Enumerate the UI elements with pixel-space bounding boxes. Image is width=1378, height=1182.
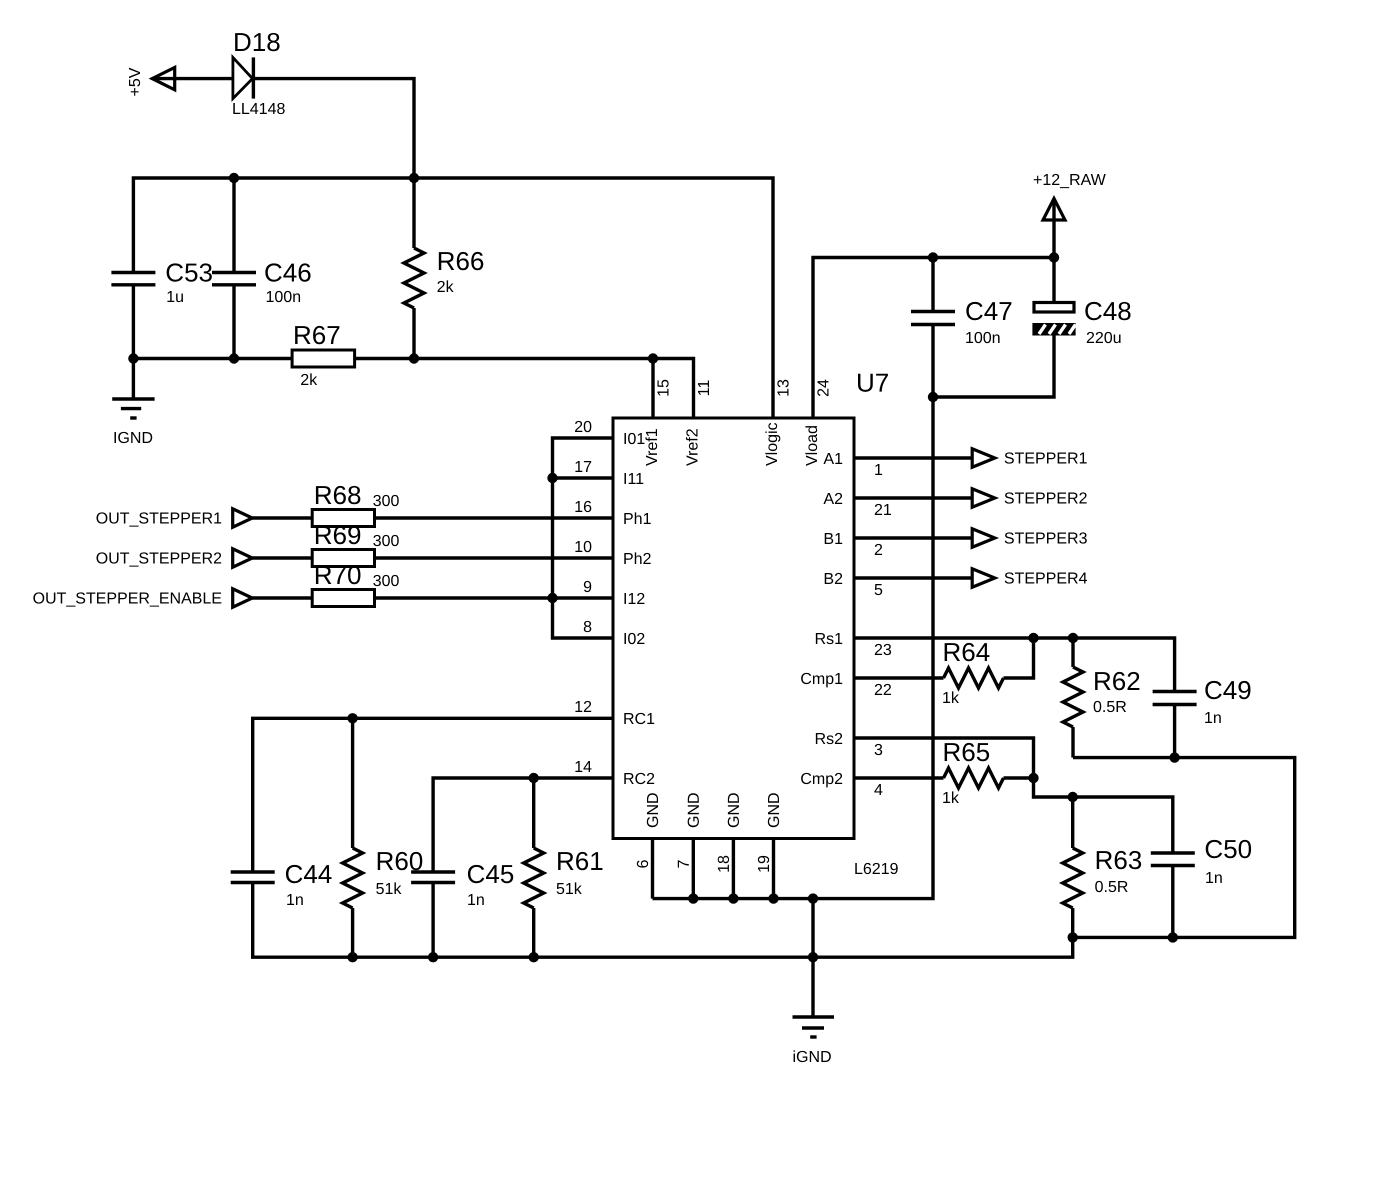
wire R70 to U7: [375, 596, 614, 599]
wire bracket I01-I11-I12-I02: [553, 438, 614, 638]
net flag STEPPER2: [972, 489, 1086, 507]
resistor R66 2k: [404, 248, 483, 308]
junction bottom bus / C45: [428, 952, 438, 962]
ground iGND: [793, 1017, 835, 1062]
wire Vref1 pin 15 stub: [651, 359, 654, 419]
wire R60 top: [351, 718, 354, 848]
wire R60 bottom: [351, 908, 354, 957]
pin 5 B2: [825, 573, 882, 595]
wire R64 to Rs1 junction: [1004, 638, 1034, 678]
resistor R70 300: [312, 566, 399, 607]
pin 14 RC2: [575, 761, 654, 784]
capacitor C45 1n: [411, 865, 513, 905]
wire GND pin 6 stub: [651, 839, 654, 899]
power flag +5V: [129, 67, 175, 95]
junction bottom bus / iGND: [808, 952, 818, 962]
capacitor C48 220u polarized: [1032, 302, 1130, 343]
capacitor C49 1n: [1153, 681, 1251, 723]
pin 8 I02: [584, 621, 645, 644]
pin 4 Cmp2: [801, 773, 882, 795]
net flag OUT_STEPPER1: [97, 509, 253, 527]
net flag OUT_STEPPER_ENABLE: [33, 589, 252, 607]
junction mid bus / Vref1 pin 15: [648, 353, 658, 363]
resistor R65 1k: [943, 743, 1003, 803]
ground IGND: [112, 399, 154, 443]
resistor R67 2k: [292, 326, 355, 385]
wire D18 cathode to node at x414: [253, 79, 414, 178]
wire U7 to STEPPER3: [854, 536, 972, 539]
pin 23 Rs1: [816, 633, 891, 655]
wire GND pin 7 stub: [692, 839, 695, 899]
junction mid bus / C46: [229, 353, 239, 363]
resistor R69 300: [312, 526, 399, 567]
wire Rs2 node down to sense2 rail, to C50 top: [1034, 778, 1173, 853]
junction RC2 / R61: [529, 773, 539, 783]
wire +5V to D18 anode: [174, 77, 233, 80]
wire C46 bottom to mid bus: [232, 285, 235, 359]
wire +12_RAW stem to C48 top: [1052, 220, 1055, 301]
wire R65 to Rs2 node: [1004, 776, 1034, 779]
wire U7 to STEPPER4: [854, 576, 972, 579]
wire I11 stub: [553, 476, 614, 479]
pin 12 RC1: [575, 701, 654, 724]
capacitor C50 1n: [1151, 840, 1251, 883]
wire top bus from C53 up across to Vlogic pin 13: [133, 178, 773, 418]
wire GND pin 18 stub: [732, 839, 735, 899]
wire R63 top: [1071, 797, 1074, 848]
wire C50 bottom: [1171, 866, 1174, 938]
junction mid bus / C53+IGND: [128, 353, 138, 363]
wire Rs1 pin 23 to C49 top: [854, 638, 1175, 692]
op-amp U7 L6219 IC body: [613, 374, 898, 874]
junction RC1 / R60: [347, 713, 357, 723]
resistor R63 0.5R: [1063, 848, 1141, 908]
wire GND pin 19 stub: [772, 839, 775, 899]
junction GND bus pin 18: [728, 893, 738, 903]
capacitor C46 100n: [212, 263, 311, 302]
wire C47 top: [931, 258, 934, 312]
resistor R68 300: [312, 486, 399, 527]
wire C49 bottom: [1173, 705, 1176, 758]
pin 10 Ph2: [575, 541, 650, 564]
wire R66 top: [412, 178, 415, 248]
wire U7 to STEPPER2: [854, 496, 972, 499]
wire mid bus right segment to Vref2 pin 11: [355, 359, 694, 419]
net flag STEPPER4: [972, 569, 1087, 587]
pin 18 GND: [718, 793, 739, 871]
junction top bus / D18+R66: [409, 173, 419, 183]
pin 2 B1: [825, 533, 882, 555]
wire R63 bottom: [1071, 908, 1074, 937]
wire to IGND: [132, 359, 135, 400]
junction Rs1 / R62: [1068, 633, 1078, 643]
capacitor C53 1u: [111, 263, 211, 302]
wire R66 bottom to mid bus: [412, 308, 415, 359]
wire R62 top: [1071, 638, 1074, 667]
net flag STEPPER3: [972, 529, 1087, 547]
pin 7 GND: [678, 793, 699, 867]
pin 15 Vref1: [645, 380, 668, 466]
wire mid bus left segment: [133, 357, 292, 360]
wire RC2 pin 14 to C45 top: [433, 778, 613, 872]
wire R62 bottom: [1071, 727, 1074, 758]
wire C44 bottom + bottom bus to sense rail: [253, 883, 1073, 958]
junction bracket / I12: [547, 593, 557, 603]
wire R61 top: [532, 778, 535, 848]
junction sense2 rail / R63: [1068, 792, 1078, 802]
junction mid bus / R66: [409, 353, 419, 363]
pin 21 A2: [823, 493, 891, 515]
junction bottom bus / R61: [529, 952, 539, 962]
wire C46 top: [232, 178, 235, 273]
junction C47 bottom / C48 return: [928, 392, 938, 402]
junction GND bus pin 7: [688, 893, 698, 903]
capacitor C44 1n: [231, 865, 332, 905]
net flag OUT_STEPPER2: [97, 549, 253, 567]
junction +12 bus / C48 +12_RAW: [1049, 252, 1059, 262]
wire Vload pin 24 up and right to +12 bus: [813, 258, 1054, 419]
junction bottom-right bus / R63: [1068, 932, 1078, 942]
pin 22 Cmp1: [801, 673, 891, 695]
wire R68 to U7: [375, 516, 614, 519]
pin 20 I01: [575, 421, 644, 444]
wire R69 to U7: [375, 556, 614, 559]
wire RC1 pin 12 to C44 top: [253, 718, 613, 872]
pin 13 Vlogic: [765, 380, 788, 466]
wire C53 bottom to mid bus: [132, 285, 135, 359]
wire C48 bottom to C47 vertical: [933, 336, 1054, 398]
resistor R60 51k: [343, 848, 423, 908]
junction Rs2 / R65: [1028, 773, 1038, 783]
junction top bus / C46: [229, 173, 239, 183]
junction bracket / I11: [547, 473, 557, 483]
pin 6 GND: [637, 793, 658, 867]
wire GND bus down to iGND: [811, 899, 814, 1017]
pin 11 Vref2: [686, 380, 709, 465]
pin 19 GND: [758, 793, 779, 871]
wire Rs2 pin 3 down to Cmp2 node: [854, 738, 1034, 778]
pin 24 Vload: [805, 380, 828, 466]
wire C47 bottom, long vertical down to GND bus: [653, 325, 934, 899]
wire Cmp2 pin 4 to R65: [854, 776, 944, 779]
diode D18 LL4148: [233, 33, 285, 114]
power flag +12_RAW: [1034, 174, 1106, 220]
junction Rs1 / R64: [1028, 633, 1038, 643]
resistor R62 0.5R: [1063, 667, 1139, 727]
pin 9 I12: [584, 581, 645, 604]
junction GND bus / iGND drop: [808, 893, 818, 903]
pin 3 Rs2: [816, 733, 882, 755]
wire R61 bottom: [532, 908, 535, 957]
resistor R64 1k: [943, 643, 1003, 703]
junction bottom bus / R60: [347, 952, 357, 962]
wire C45 bottom: [431, 883, 434, 958]
pin 16 Ph1: [575, 501, 650, 524]
pin 1 A1: [823, 453, 882, 475]
wire sense1 return bus: [1073, 758, 1295, 938]
resistor R61 51k: [524, 848, 603, 908]
wire Cmp1 pin 22 to R64: [854, 676, 944, 679]
junction bottom-right bus / C50: [1168, 932, 1178, 942]
wire OUT_STEPPER_ENABLE to R70: [252, 596, 312, 599]
junction sense1 bus / C49: [1169, 752, 1179, 762]
capacitor C47 100n: [911, 302, 1011, 343]
junction GND bus pin 19: [768, 893, 778, 903]
wire OUT_STEPPER1 to R68: [252, 516, 312, 519]
net flag STEPPER1: [972, 449, 1086, 467]
wire U7 to STEPPER1: [854, 456, 972, 459]
junction +12 bus / C47: [928, 252, 938, 262]
pin 17 I11: [575, 461, 643, 484]
wire OUT_STEPPER2 to R69: [252, 556, 312, 559]
